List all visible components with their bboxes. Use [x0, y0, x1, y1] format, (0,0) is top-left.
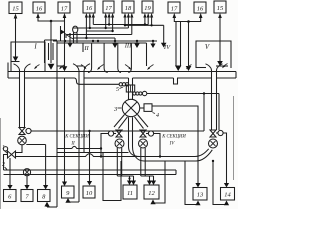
long line y144.5 from pump [26, 144, 45, 146]
box11 bottom hook [103, 153, 121, 201]
wire to box10 top from line y131 [89, 131, 91, 181]
bus y31 [86, 30, 112, 32]
far-right valve wire to box 14 [223, 133, 226, 183]
flow arrow in pipe x36 [35, 65, 40, 69]
manifold valve [23, 169, 30, 176]
duct bend up to right pump [195, 149, 209, 157]
svg-text:16: 16 [197, 6, 204, 13]
bus y24.5 [93, 24, 148, 26]
tub wall a2 [104, 43, 108, 73]
arrow into box 17c [173, 13, 177, 18]
svg-text:5: 5 [116, 87, 119, 93]
svg-text:17: 17 [105, 5, 112, 12]
junction [50, 20, 53, 23]
box 12 [144, 185, 159, 199]
svg-text:1: 1 [2, 145, 5, 151]
tub wall b1 [118, 43, 121, 73]
line y156.5 [16, 154, 196, 157]
wire junction down [50, 21, 52, 63]
section II floor segments [57, 65, 64, 67]
tub wall a1 [88, 43, 92, 73]
flow arrow in tub b [125, 65, 131, 70]
svg-text:IV: IV [169, 142, 176, 147]
arrow into section I floor [13, 57, 19, 62]
wire valve1 left to manifold [4, 155, 8, 171]
pipe left end [7, 63, 9, 79]
wires box18 stems [124, 15, 126, 25]
pipe right end [235, 72, 237, 79]
svg-text:III: III [124, 43, 132, 50]
section I floor segment [11, 61, 20, 63]
ribbed fitting 5 [126, 85, 134, 92]
pump mid-left [115, 139, 124, 148]
svg-text:11: 11 [127, 190, 133, 197]
section IV left wall [146, 43, 148, 66]
duct wall x84 down [83, 71, 85, 153]
valve 1 (bowtie) [8, 151, 16, 158]
junction dot x93 [92, 40, 94, 42]
funnel under section II [73, 64, 90, 71]
flow arrow in pipe x188 [187, 65, 192, 69]
link pump down [16, 145, 23, 153]
section II outline [57, 43, 83, 52]
svg-text:К СЕКЦИИ: К СЕКЦИИ [161, 135, 186, 140]
bus y34.5 [66, 35, 132, 39]
box 15 (top left) [9, 2, 22, 14]
box 9 [62, 186, 75, 198]
motor box 4 [140, 107, 144, 109]
svg-text:4: 4 [156, 112, 159, 119]
fan center duct [128, 117, 130, 146]
bus junction dots [108, 23, 110, 25]
svg-text:V: V [205, 43, 210, 51]
box 11 [123, 185, 137, 199]
box 10 [83, 186, 95, 198]
arrows into box 19 (three) [143, 13, 146, 18]
bellows B line to right [133, 92, 136, 95]
arrow into duct [48, 64, 55, 70]
mid-right valve side wire [154, 134, 160, 157]
box13 bottom hook [185, 161, 198, 205]
box 18 [122, 1, 134, 13]
drop into section IV mid [152, 41, 154, 44]
box 17 (3rd) [58, 2, 70, 13]
svg-text:IV: IV [163, 44, 171, 51]
arrows into box 17b (three) [104, 13, 107, 18]
section V floor segment [216, 65, 228, 67]
drop into section IV left [136, 41, 138, 44]
flow arrow at fan mouth right [148, 65, 154, 70]
sensor bulb [73, 26, 78, 33]
duct between I and II [45, 40, 58, 63]
svg-text:13: 13 [197, 192, 204, 199]
junction [187, 20, 190, 23]
fan inlet pipe [128, 78, 130, 100]
box 17 (8th) [168, 2, 180, 13]
arrow into box 15 [14, 14, 18, 19]
pump mid-right [139, 139, 148, 148]
flow arrow in pipe x84 [81, 65, 86, 69]
tub wall b2 [128, 43, 131, 73]
wires box17b stems [105, 15, 107, 28]
svg-text:16: 16 [86, 5, 93, 12]
bus y28 [73, 27, 128, 29]
section V outline [196, 41, 231, 68]
section III top edge [83, 42, 147, 44]
fan 3 (crossed circle) [122, 99, 139, 116]
drop into section III right [114, 38, 116, 44]
funnel under section I [14, 64, 31, 70]
main pipe bottom wall [8, 77, 236, 79]
wire manifold valve to box 7 [26, 176, 28, 185]
section I outline [11, 42, 45, 72]
bus y41 (long) [53, 40, 157, 42]
arrow into box 16 [36, 13, 40, 18]
wire to box 13 top [152, 106, 198, 183]
line y152.5 [57, 152, 129, 154]
valve mid-left (bowtie) [116, 130, 122, 137]
svg-text:15: 15 [12, 6, 19, 13]
svg-text:14: 14 [224, 192, 231, 199]
mid-left pump down duct [116, 148, 118, 176]
mid-left valve side wire [101, 134, 108, 157]
box 7 [21, 190, 33, 202]
funnel under section V [206, 64, 223, 70]
long line y131 [31, 130, 204, 132]
section II left wall long drop [56, 41, 58, 207]
svg-text:II: II [70, 142, 75, 147]
bus y25.3 [125, 24, 164, 26]
box 13 [193, 188, 207, 201]
box14 bottom hook [213, 161, 227, 205]
arrows into box 16 (three) [85, 13, 88, 18]
wire junction down to duct [188, 22, 190, 67]
channel right wall [60, 26, 62, 41]
wire x219 down to valve [218, 94, 220, 131]
twin duct drop onto pipe x178 [175, 22, 177, 66]
arrow into duct [186, 66, 192, 71]
pump far-right [209, 139, 218, 148]
wire fan discharge to right [147, 93, 219, 95]
arrow into section V floor [217, 61, 223, 66]
wire box16 to box17 [38, 16, 65, 22]
mid-right pump down duct [140, 148, 142, 176]
curved link to sensor bulb [65, 34, 74, 40]
svg-text:10: 10 [86, 190, 93, 197]
valve far-left (bowtie) [19, 128, 25, 135]
svg-text:12: 12 [148, 190, 155, 197]
arrow into box 17 [63, 13, 67, 18]
arrow into box 16c [199, 13, 203, 18]
valve mid-right (bowtie) [140, 130, 146, 137]
flow arrow in tub a [98, 65, 104, 70]
box 15 (10th) [214, 1, 226, 13]
wires box16b stems [85, 15, 87, 38]
wire box15b down into section V [219, 16, 221, 62]
wire box17c to box16c [174, 16, 200, 22]
duct bottom line y161 [144, 160, 196, 162]
svg-text:18: 18 [125, 5, 132, 12]
svg-text:16: 16 [36, 6, 43, 13]
line y148.5 with hop [57, 146, 101, 148]
svg-text:II: II [83, 45, 89, 52]
arrows into box 18 (three) [123, 13, 126, 18]
wire from box 15 down into section I [15, 16, 17, 57]
svg-text:17: 17 [171, 6, 178, 13]
bus y38 [74, 37, 115, 39]
box 6 [4, 190, 17, 202]
svg-text:17: 17 [61, 6, 68, 13]
svg-text:15: 15 [217, 5, 224, 12]
box 14 [221, 188, 235, 201]
bellows A line to left [80, 83, 120, 85]
center duct bend into lower duct [129, 147, 141, 157]
duct wall x79 down [78, 71, 80, 203]
box 16 (4th) [83, 1, 95, 13]
main pipe top wall [8, 71, 236, 73]
svg-text:К СЕКЦИИ: К СЕКЦИИ [64, 135, 89, 140]
duct jog below pipe [75, 78, 80, 84]
box 19 [142, 1, 153, 13]
wire x64.5 from device to pipe [64, 21, 66, 67]
damper flag on channel [61, 30, 65, 35]
valve far-right (bowtie) [210, 130, 216, 137]
arrow into box 15b [218, 13, 222, 18]
pump far-left [18, 136, 27, 145]
wire x204 down [203, 94, 205, 132]
box 8 [38, 190, 51, 202]
box 16 (9th) [194, 2, 206, 13]
box 17 (5th) [103, 1, 114, 13]
wire valve1 down to box 6 [9, 158, 11, 185]
drop into section II [69, 35, 71, 44]
scan edge artifacts [0, 118, 2, 209]
box12 bottom hook [153, 161, 165, 203]
drop into section IV right [163, 25, 165, 43]
fan legs [114, 115, 148, 129]
wire x64.5 below pipe [64, 78, 66, 182]
flow arrow in pipe x224 [223, 64, 228, 68]
wires box19 stems [144, 15, 146, 25]
box9 bottom hook [68, 200, 79, 203]
box 16 (2nd) [33, 2, 45, 13]
manifold 2 double line [4, 169, 177, 171]
stub below pipe right [174, 78, 178, 84]
flow arrow near duct x61 [60, 65, 65, 69]
svg-text:19: 19 [144, 5, 151, 12]
